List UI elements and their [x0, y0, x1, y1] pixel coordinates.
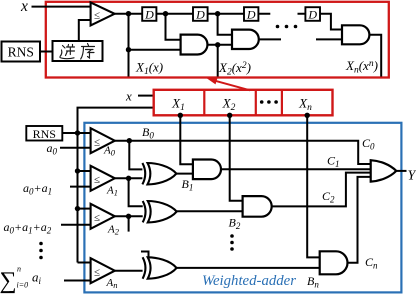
- AND gate Cn: [320, 251, 348, 274]
- XOR gate Xng: [143, 257, 177, 278]
- wire A1 output to XOR1 lower input: [115, 177, 143, 179]
- svg-text:D: D: [246, 7, 256, 21]
- wire C2 to OR input: [272, 173, 371, 207]
- wire X1 register line to AND C1 upper input: [180, 115, 193, 164]
- wire D2 to D3: [208, 13, 244, 15]
- node register X2 tap: [227, 113, 232, 118]
- node B0: [127, 138, 132, 143]
- red frame box: [46, 2, 389, 78]
- wire a0 to A0: [60, 147, 91, 149]
- svg-text:∑: ∑: [0, 268, 17, 294]
- wire x to comparator: [32, 6, 91, 8]
- ellipsis (inputs continuation): [39, 242, 43, 246]
- wire C1 to OR input: [221, 168, 371, 170]
- comparator A0: [91, 128, 115, 153]
- wire D1 to D2: [156, 13, 193, 15]
- RNS box U3: [26, 126, 62, 141]
- node n2: [126, 47, 131, 52]
- node register X1 tap: [178, 113, 183, 118]
- comparator An: [91, 258, 115, 283]
- svg-text:x: x: [20, 0, 28, 15]
- flip-flop D1: [142, 7, 156, 21]
- XOR gate X1g: [142, 163, 176, 184]
- svg-text:i=0: i=0: [17, 281, 29, 290]
- wire sum to An: [64, 280, 91, 282]
- svg-text:≤: ≤: [94, 136, 100, 148]
- ellipsis dots (chain continuation): [276, 25, 280, 29]
- svg-text:D: D: [195, 7, 205, 21]
- wire X2 register line to AND C2 upper input: [230, 115, 243, 201]
- wire Cn to OR input: [348, 177, 371, 263]
- wire ANDn output to Xn vertical: [369, 35, 381, 77]
- AND gate G1: [181, 35, 208, 55]
- AND gate C1: [193, 160, 221, 180]
- wire register to RNS line: [78, 108, 154, 133]
- wire D4 to ANDn upper input: [320, 14, 342, 30]
- wire a0+a1+a2 to A2: [61, 224, 91, 226]
- wire XORn upper input hook: [141, 252, 149, 260]
- svg-text:n: n: [17, 265, 21, 274]
- red arrow register to top box: [213, 80, 250, 90]
- blue frame box: [84, 123, 401, 293]
- svg-text:RNS: RNS: [8, 45, 34, 60]
- wire XOR1 output B1 to AND C1: [176, 173, 193, 175]
- node register Xn tap: [305, 113, 310, 118]
- wire OR output Y: [396, 170, 406, 172]
- flip-flop D2: [193, 7, 208, 21]
- RNS box U1: [2, 42, 41, 62]
- wire RNS vertical distribution: [77, 133, 79, 263]
- wire A0 output B0 to OR (C0 path): [115, 141, 371, 164]
- comparator U2 (triangle): [91, 2, 115, 25]
- node n1: [126, 11, 131, 16]
- ellipsis (rows continuation): [230, 234, 234, 238]
- wire A1 node down to XOR2 upper input: [129, 178, 143, 206]
- node A1 out: [126, 176, 131, 181]
- wire Xn register line to AND Cn upper input: [307, 115, 320, 257]
- node n4: [215, 42, 220, 47]
- register (X1..Xn cells): [154, 90, 333, 116]
- wire XORn output Bn to AND Cn: [177, 267, 320, 269]
- wire x to register: [138, 95, 154, 97]
- svg-text:≤: ≤: [94, 266, 100, 278]
- wire node to AND2 upper input: [218, 14, 232, 35]
- flip-flop D4: [305, 7, 320, 21]
- OR gate G3: [371, 160, 397, 181]
- node n3: [163, 11, 168, 16]
- wire XOR2 output B2 to AND C2: [177, 210, 243, 212]
- reverse-order box (nixu): [53, 41, 103, 61]
- wire B0 to XOR1 upper input: [129, 141, 142, 170]
- AND gate Gn: [342, 25, 369, 44]
- wire RNS to reverse-order box: [40, 51, 53, 53]
- AND gate C2: [243, 196, 272, 217]
- wire a0+a1 to A1: [70, 186, 91, 188]
- wire X2 vertical: [217, 45, 219, 77]
- wire A2 output to XOR2 lower input: [115, 215, 143, 217]
- node RNS junction: [75, 130, 80, 135]
- svg-text:X2(x2): X2(x2): [218, 60, 251, 78]
- wire node to AND1 lower input: [129, 49, 181, 51]
- wire reverse-order box to comparator lower input: [79, 20, 91, 41]
- svg-text:≤: ≤: [94, 174, 100, 186]
- node A1 tap: [75, 168, 80, 173]
- wire An output to XORn lower input: [115, 270, 143, 272]
- wire A2 node stub down: [128, 216, 130, 231]
- AND gate G2: [232, 30, 259, 49]
- svg-text:RNS: RNS: [33, 127, 56, 141]
- node n5: [215, 11, 220, 16]
- svg-text:Y: Y: [408, 169, 416, 184]
- svg-text:≤: ≤: [94, 212, 100, 224]
- svg-text:Weighted-adder: Weighted-adder: [202, 273, 296, 289]
- svg-text:X1(x): X1(x): [135, 60, 163, 78]
- svg-text:x: x: [125, 89, 132, 104]
- node A2 tap: [75, 206, 80, 211]
- wire to A2 upper input: [78, 208, 91, 210]
- flip-flop D3: [244, 7, 258, 21]
- comparator A2: [91, 204, 115, 229]
- svg-text:D: D: [307, 7, 317, 21]
- wire to An upper input: [78, 262, 91, 264]
- wire RNS to A0 upper input: [62, 132, 90, 134]
- wire node to AND1 upper input: [166, 14, 181, 40]
- node A2 out: [126, 214, 131, 219]
- XOR gate X2g: [143, 201, 177, 222]
- wire X1 vertical: [128, 14, 130, 77]
- wire AND1 output to AND2 lower input: [207, 44, 232, 46]
- wire AND2 output (with ellipsis gap): [259, 38, 342, 40]
- svg-text:≤: ≤: [94, 10, 100, 22]
- wire D3 out (gap for dots): [258, 13, 305, 15]
- wire comparator output: [115, 13, 143, 15]
- svg-text:Xn(xn): Xn(xn): [345, 58, 378, 76]
- svg-text:D: D: [144, 7, 154, 21]
- wire to A1 upper input: [78, 170, 91, 172]
- comparator A1: [91, 166, 115, 191]
